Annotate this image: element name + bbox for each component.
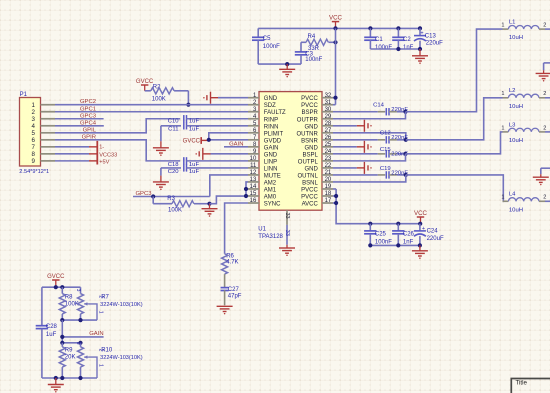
svg-text:100nF: 100nF <box>305 57 322 63</box>
svg-text:100K: 100K <box>65 301 79 307</box>
svg-text:1-: 1- <box>99 145 104 151</box>
power symbol GVCC (to PLIMIT/GVDD) <box>183 137 209 145</box>
svg-text:100nF: 100nF <box>263 44 280 50</box>
power symbol GVCC (bottom left) <box>47 274 65 287</box>
power symbol VCC (bottom right) <box>414 210 428 226</box>
wire net GPC2 (P1.1 to U1.2 SDZ) <box>55 104 248 106</box>
svg-text:GND: GND <box>264 152 278 158</box>
ground under C13 <box>412 49 428 64</box>
op-amp/IC U1 TPA3128 body <box>259 92 322 211</box>
svg-text:25: 25 <box>325 142 332 148</box>
svg-text:14: 14 <box>250 184 257 190</box>
U1 designator <box>258 227 283 241</box>
svg-text:10uH: 10uH <box>509 207 523 213</box>
svg-text:1uF: 1uF <box>189 169 200 175</box>
svg-text:24: 24 <box>325 149 332 155</box>
wire R9/R10 top rail <box>60 341 82 345</box>
svg-text:OUTPR: OUTPR <box>297 117 319 123</box>
svg-text:3224W-103(10K): 3224W-103(10K) <box>100 355 143 361</box>
wire net GPC4 stub <box>55 125 104 127</box>
wire C25/C26/C24 bottom rail <box>368 243 422 247</box>
power bar P1 pins 7/8/9 (1-, VCC33, +5V) <box>55 141 117 165</box>
svg-text:1: 1 <box>98 311 104 314</box>
wire PVCC pins 32/31 to VCC rail <box>333 96 338 105</box>
wire BSNL pin20 jog <box>333 175 406 182</box>
wire top VCC rail <box>258 27 420 29</box>
svg-text:1: 1 <box>501 23 504 29</box>
svg-text:PVCC: PVCC <box>301 103 318 109</box>
capacitor C2 1nF <box>392 28 413 50</box>
ground under C27 <box>217 306 233 314</box>
svg-text:C15: C15 <box>380 147 392 153</box>
svg-text:33: 33 <box>284 213 290 219</box>
svg-text:100K: 100K <box>152 96 166 102</box>
wire PVCC/AVCC pins 19/18/17 rail <box>333 189 420 224</box>
capacitor C28 1uF <box>36 287 58 378</box>
svg-text:3: 3 <box>75 342 81 345</box>
svg-text:SYNC: SYNC <box>264 202 281 208</box>
svg-text:L4: L4 <box>509 192 516 198</box>
svg-text:U1: U1 <box>258 227 266 233</box>
svg-text:VCC: VCC <box>414 210 428 217</box>
svg-text:3: 3 <box>75 289 81 292</box>
svg-text:C13: C13 <box>425 33 437 39</box>
capacitor C10 1uF <box>168 115 248 125</box>
svg-text:10uH: 10uH <box>509 104 523 110</box>
resistor R8 100K <box>59 287 79 320</box>
wire SYNC pin16 down to R6 <box>225 203 248 254</box>
svg-text:BSPL: BSPL <box>302 152 318 158</box>
svg-text:R7: R7 <box>101 294 109 300</box>
wire net GPIR (P1.6 down to C18) <box>55 140 180 161</box>
svg-text:C27: C27 <box>228 287 240 293</box>
svg-text:2: 2 <box>543 195 546 201</box>
svg-text:12: 12 <box>250 170 257 176</box>
svg-text:9: 9 <box>32 158 36 165</box>
svg-text:C19: C19 <box>380 166 391 172</box>
svg-text:GND: GND <box>264 96 278 102</box>
potentiometer R7 3224W-103(10K) <box>75 287 143 320</box>
inductor L4 10uH <box>501 192 550 214</box>
capacitor C27 47pF <box>221 287 242 305</box>
ground for C11 <box>153 126 169 156</box>
svg-text:2.54*9*12*1: 2.54*9*12*1 <box>19 169 49 175</box>
inductor L3 10uH <box>501 122 550 144</box>
svg-text:C28: C28 <box>46 324 58 330</box>
svg-text:4: 4 <box>32 123 36 130</box>
svg-text:31: 31 <box>325 100 332 106</box>
svg-text:1nF: 1nF <box>403 239 414 245</box>
svg-text:TPA3128: TPA3128 <box>258 234 283 240</box>
ground at U1 pin 25 <box>333 141 372 153</box>
svg-text:1uF: 1uF <box>189 126 200 132</box>
svg-text:2: 2 <box>543 125 546 131</box>
wire OUTPL to L3 <box>406 132 503 154</box>
svg-text:RINP: RINP <box>264 117 278 123</box>
svg-text:AVCC: AVCC <box>302 202 319 208</box>
svg-text:VCC33: VCC33 <box>99 152 117 158</box>
svg-text:22: 22 <box>325 163 332 169</box>
svg-text:47pF: 47pF <box>228 294 242 300</box>
inductor L1 10uH <box>501 20 550 42</box>
svg-text:VCC: VCC <box>329 15 343 22</box>
capacitor C1 100nF <box>364 28 392 50</box>
capacitor C18 1uF <box>168 157 248 168</box>
capacitor C19 220nF <box>333 166 408 178</box>
wire divider mid rail <box>60 318 97 322</box>
node R2/SDZ junction <box>186 103 190 107</box>
svg-text:13: 13 <box>250 177 257 183</box>
svg-text:C20: C20 <box>168 169 180 175</box>
svg-text:AM0: AM0 <box>264 194 277 200</box>
svg-text:BSNL: BSNL <box>302 180 318 186</box>
svg-text:AM2: AM2 <box>264 180 277 186</box>
node C14/OUTPR junction <box>403 110 407 114</box>
resistor R6 4.7K <box>222 253 239 287</box>
svg-text:LINP: LINP <box>264 159 277 165</box>
svg-text:1: 1 <box>32 102 36 109</box>
inductor L2 10uH <box>501 88 550 110</box>
svg-text:BSPR: BSPR <box>301 110 318 116</box>
wire C5/C3 bottom rail <box>258 62 301 66</box>
svg-text:100K: 100K <box>168 208 182 214</box>
svg-text:C10: C10 <box>168 119 180 125</box>
svg-text:PVCC: PVCC <box>301 96 318 102</box>
node C12/OUTNR junction <box>404 138 408 142</box>
wire OUTPL pin23 jog <box>333 154 406 161</box>
svg-text:+: + <box>422 226 425 232</box>
svg-text:GPC2: GPC2 <box>80 99 96 105</box>
svg-text:GND: GND <box>304 145 318 151</box>
svg-text:11: 11 <box>250 163 257 169</box>
svg-text:8: 8 <box>32 151 36 158</box>
svg-text:3: 3 <box>32 116 36 123</box>
svg-text:29: 29 <box>325 114 332 120</box>
svg-text:C5: C5 <box>263 36 271 42</box>
wire GVCC to pins 6,7 <box>207 133 248 142</box>
svg-text:30: 30 <box>325 107 332 113</box>
svg-text:+: + <box>420 31 423 37</box>
capacitor C3 100nF <box>295 42 323 64</box>
svg-text:C24: C24 <box>427 229 439 235</box>
resistor R4 33R <box>301 34 338 52</box>
ground at U1 pin 1 <box>203 92 248 104</box>
svg-text:220uF: 220uF <box>426 40 443 46</box>
svg-text:PLIMIT: PLIMIT <box>264 131 284 137</box>
svg-text:GVCC: GVCC <box>183 139 201 145</box>
capacitor C20 1uF (to gnd) <box>161 164 248 175</box>
svg-text:28: 28 <box>325 121 332 127</box>
wire GVCC top rail <box>42 285 81 289</box>
svg-text:GND: GND <box>304 124 318 130</box>
svg-text:3224W-103(10K): 3224W-103(10K) <box>100 302 143 308</box>
wire R3 to AM0/AM1/AM2 pins 13-15 <box>210 182 249 204</box>
svg-text:Title: Title <box>516 379 528 386</box>
ground under C5/C3 <box>279 64 295 77</box>
svg-text:19: 19 <box>325 184 332 190</box>
svg-text:26: 26 <box>325 135 332 141</box>
U1 left pins 1-16 <box>248 93 286 208</box>
capacitor C13 220uF electrolytic <box>414 28 443 49</box>
capacitor C15 220nF <box>333 147 408 157</box>
svg-text:C1: C1 <box>375 37 383 43</box>
node C19/OUTNL junction <box>404 173 408 177</box>
svg-text:100nF: 100nF <box>375 45 392 51</box>
svg-text:10uH: 10uH <box>509 138 523 144</box>
svg-text:OUTNL: OUTNL <box>297 173 318 179</box>
svg-text:1: 1 <box>501 91 504 97</box>
svg-text:1: 1 <box>501 125 504 131</box>
wire net GPC1 (P1.2 to U1.3 FAULTZ) <box>55 111 248 113</box>
svg-text:C14: C14 <box>373 103 385 109</box>
wire OUTNR pin27 jog <box>333 133 406 140</box>
connector P1 2.54*9*12*1 <box>19 92 49 175</box>
svg-text:GND: GND <box>304 166 318 172</box>
svg-text:10: 10 <box>250 156 257 162</box>
svg-text:GPC1: GPC1 <box>80 106 96 112</box>
svg-text:BSNR: BSNR <box>301 138 318 144</box>
wire mid vertical + GAIN tap <box>60 320 103 343</box>
node GAIN label / wire to pin 8 <box>224 141 248 147</box>
svg-text:MUTE: MUTE <box>264 173 281 179</box>
wire OUTNR to L2 <box>406 98 503 140</box>
svg-text:16: 16 <box>250 198 257 204</box>
svg-text:4.7K: 4.7K <box>226 260 238 266</box>
resistor R9 20K <box>59 343 75 378</box>
wire net GPIL (P1.5 up to C10) <box>55 119 180 133</box>
svg-text:32: 32 <box>325 93 332 99</box>
svg-text:PVCC: PVCC <box>301 194 318 200</box>
potentiometer R10 3224W-103(10K) <box>75 342 143 378</box>
ground for C20 <box>153 168 169 190</box>
wire OUTPR pin29 jog <box>333 112 406 119</box>
svg-text:AM1: AM1 <box>264 187 277 193</box>
P1 pin stubs <box>41 105 56 161</box>
svg-text:C12: C12 <box>380 131 391 137</box>
resistor R2 100K <box>145 85 189 105</box>
ground at R3 output <box>202 202 218 217</box>
svg-text:R10: R10 <box>101 348 113 354</box>
ground right middle (from off-page) <box>533 168 550 185</box>
svg-text:GVDD: GVDD <box>264 138 282 144</box>
capacitor C14 220nF <box>333 103 408 116</box>
svg-text:FAULTZ: FAULTZ <box>264 110 286 116</box>
capacitor C26 1nF <box>392 222 414 246</box>
svg-text:GPC3: GPC3 <box>80 113 97 119</box>
svg-text:GAIN: GAIN <box>264 145 279 151</box>
svg-text:1uF: 1uF <box>46 332 57 338</box>
svg-text:21: 21 <box>325 170 332 176</box>
wire OUTNL to L4 <box>406 175 504 201</box>
ground at U1 pin 22 <box>333 162 372 174</box>
capacitor C25 100nF <box>364 222 392 246</box>
svg-text:PVCC: PVCC <box>301 187 318 193</box>
svg-text:220uF: 220uF <box>427 236 444 242</box>
svg-text:GPIL: GPIL <box>83 127 97 133</box>
svg-text:7: 7 <box>32 144 36 151</box>
node VCC rail junctions <box>333 26 422 30</box>
power symbol GVCC (above R2) <box>136 79 154 91</box>
wire net GPC3 stub <box>55 118 104 120</box>
svg-text:+5V: +5V <box>99 159 109 165</box>
svg-text:100nF: 100nF <box>375 239 392 245</box>
wire C1/C2/C13 bottom rail <box>370 47 422 51</box>
svg-text:33: 33 <box>284 230 290 236</box>
svg-text:L3: L3 <box>509 122 516 128</box>
wire VCC vertical to PVCC pins 32/31 <box>335 28 337 104</box>
svg-text:OUTNR: OUTNR <box>296 131 318 137</box>
node C15/OUTPL junction <box>403 152 407 156</box>
svg-text:GPC4: GPC4 <box>80 120 97 126</box>
ground under C24 <box>412 245 428 258</box>
ground bottom left <box>48 378 64 393</box>
svg-text:LINN: LINN <box>264 166 278 172</box>
svg-text:17: 17 <box>325 198 332 204</box>
svg-text:1: 1 <box>98 364 104 367</box>
svg-text:1: 1 <box>501 195 504 201</box>
svg-text:L1: L1 <box>509 20 516 26</box>
capacitor C5 100nF <box>252 28 280 64</box>
svg-text:L2: L2 <box>509 88 516 94</box>
svg-text:OUTPL: OUTPL <box>298 159 319 165</box>
svg-text:18: 18 <box>325 191 332 197</box>
svg-text:C11: C11 <box>168 126 178 132</box>
svg-text:RINN: RINN <box>264 124 279 130</box>
U1 right pins 32-17 <box>296 93 333 208</box>
svg-text:1nF: 1nF <box>403 45 414 51</box>
wire OUTPR to L1 <box>406 29 503 112</box>
title block <box>511 379 550 393</box>
capacitor C11 1uF (to gnd) <box>161 122 248 132</box>
capacitor C24 220uF electrolytic <box>414 224 444 246</box>
svg-text:SDZ: SDZ <box>264 103 276 109</box>
svg-text:GPIR: GPIR <box>82 134 96 140</box>
svg-text:20K: 20K <box>65 355 76 361</box>
svg-text:2: 2 <box>543 91 546 97</box>
svg-text:15: 15 <box>250 191 257 197</box>
svg-text:C26: C26 <box>403 232 415 238</box>
svg-text:27: 27 <box>325 128 332 134</box>
svg-text:23: 23 <box>325 156 332 162</box>
svg-text:R6: R6 <box>226 253 234 259</box>
ground at U1 pin 28 <box>333 120 372 132</box>
svg-text:10uH: 10uH <box>509 35 523 41</box>
svg-text:2: 2 <box>543 23 546 29</box>
svg-text:P1: P1 <box>20 92 28 98</box>
svg-text:2: 2 <box>32 109 36 116</box>
svg-text:GAIN: GAIN <box>89 331 103 337</box>
resistor R3 100K <box>153 196 209 213</box>
svg-text:1uF: 1uF <box>189 119 200 125</box>
capacitor C12 220nF <box>333 131 408 144</box>
wire GPC3 net to MUTE pin 12 <box>133 175 248 199</box>
svg-text:C25: C25 <box>375 232 387 238</box>
svg-text:5: 5 <box>32 130 36 137</box>
svg-text:6: 6 <box>32 137 36 144</box>
svg-text:20: 20 <box>325 177 332 183</box>
U1 pin 33 thermal pad to ground <box>279 210 295 256</box>
svg-text:C2: C2 <box>403 37 411 43</box>
power symbol VCC (top) <box>329 15 343 29</box>
wire bottom rail <box>42 376 97 380</box>
ground at U1 pin 9 <box>195 148 248 160</box>
ground right top (from off-page) <box>536 63 550 82</box>
